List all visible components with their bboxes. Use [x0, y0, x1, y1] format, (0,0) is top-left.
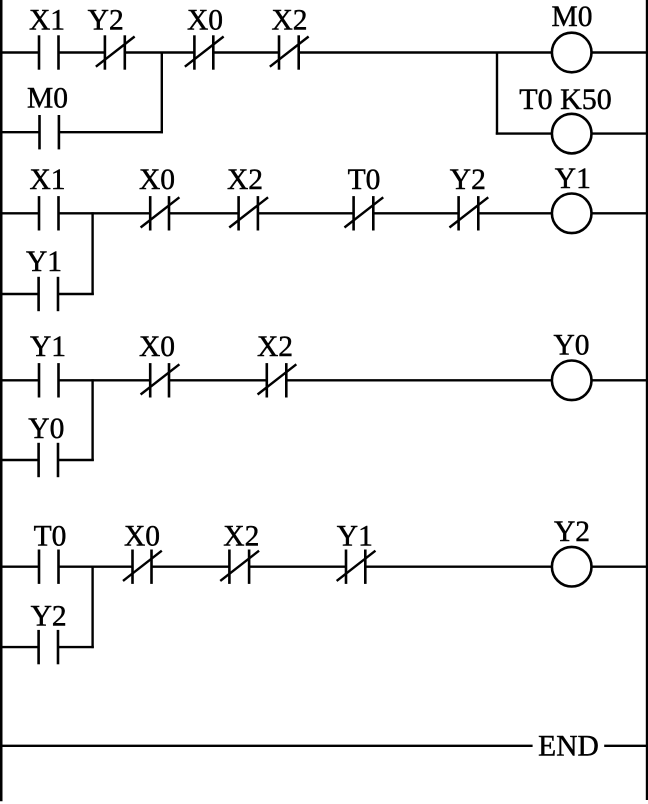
- svg-text:END: END: [538, 730, 599, 762]
- coil Y2: [552, 547, 592, 587]
- svg-text:X0: X0: [124, 520, 160, 552]
- rung 2 wire: coil Y1 to right rail: [591, 212, 646, 214]
- label X0 rung 3: [139, 331, 175, 363]
- label T0 rung 4: [34, 520, 67, 552]
- Y1 branch wire: rail to Y1 contact: [1, 293, 39, 295]
- coil Y1: [552, 194, 592, 234]
- svg-text:X2: X2: [223, 520, 259, 552]
- svg-text:T0: T0: [34, 520, 67, 552]
- rung 2 wire: rail to X1: [1, 212, 39, 214]
- contact X0 (NC) rung 4: [123, 550, 162, 584]
- rung 2 wire: T0 to Y2: [373, 212, 458, 214]
- label T0 rung 2: [348, 164, 381, 196]
- label X1: [29, 4, 65, 36]
- contact Y2 (NO) branch: [39, 630, 58, 664]
- label Y2 (branch contact): [31, 601, 67, 633]
- label Y1 (branch contact): [26, 246, 62, 278]
- rung 3 wire: rail to Y1: [1, 379, 39, 381]
- rung 3 wire: X2 to coil Y0: [286, 379, 552, 381]
- Y1 branch wire: Y1 contact to join: [58, 293, 94, 295]
- label M0 (coil): [552, 1, 593, 33]
- contact X1 (NO) rung 2: [39, 196, 59, 230]
- branch vertical wire (Y0 parallel join): [91, 379, 93, 461]
- label Y2 (coil): [554, 516, 590, 548]
- rung 1 wire: X1 to Y2: [59, 51, 105, 53]
- rung 4 wire: X0 to X2: [152, 566, 230, 568]
- svg-text:X1: X1: [29, 4, 65, 36]
- branch vertical wire (T0 coil): [496, 52, 498, 135]
- label X2: [271, 4, 307, 36]
- right power rail: [646, 0, 648, 800]
- contact X2 (NC) rung 2: [229, 196, 268, 230]
- branch vertical wire (Y1 parallel join): [91, 212, 93, 295]
- rung 4 wire: T0 to X0: [59, 566, 133, 568]
- label Y1 rung 4: [337, 521, 373, 553]
- rung 2 wire: X2 to T0: [258, 212, 354, 214]
- svg-text:T0 K50: T0 K50: [519, 83, 612, 116]
- label Y2: [88, 4, 124, 36]
- contact T0 (NO) rung 4: [39, 550, 59, 584]
- svg-text:X0: X0: [139, 164, 175, 196]
- svg-text:X2: X2: [271, 4, 307, 36]
- svg-text:M0: M0: [552, 1, 593, 33]
- contact M0 (NO): [40, 115, 59, 149]
- label X0 rung 4: [124, 520, 160, 552]
- label END: [538, 730, 599, 762]
- rung 4 wire: coil Y2 to right rail: [591, 566, 646, 568]
- contact X2 (NC): [270, 35, 309, 69]
- rung 2 wire: X1 to X0: [59, 212, 151, 214]
- Y0 branch wire: rail to Y0 contact: [1, 459, 39, 461]
- svg-text:M0: M0: [27, 83, 68, 115]
- svg-text:Y2: Y2: [450, 164, 486, 196]
- branch vertical wire (Y2 parallel join): [91, 566, 93, 648]
- svg-text:Y1: Y1: [30, 331, 66, 363]
- label Y1 rung 3: [30, 331, 66, 363]
- T0 branch wire: coil T0 to right rail: [591, 132, 646, 134]
- contact X2 (NC) rung 3: [258, 363, 297, 397]
- M0 branch wire: M0 contact to join: [59, 131, 163, 133]
- END rung wire: END label to right rail: [604, 745, 646, 747]
- contact X1 (NO): [39, 35, 59, 69]
- label Y0 (coil): [553, 330, 589, 362]
- contact Y2 (NC): [96, 35, 135, 69]
- label X0: [187, 4, 223, 36]
- END rung wire: rail to END label: [0, 745, 533, 747]
- label X0 rung 2: [139, 164, 175, 196]
- contact X0 (NC) rung 3: [141, 363, 180, 397]
- svg-text:Y0: Y0: [553, 330, 589, 362]
- label Y0 (branch contact): [28, 413, 64, 445]
- rung 2 wire: X0 to X2: [169, 212, 239, 214]
- svg-text:Y1: Y1: [337, 521, 373, 553]
- svg-text:X2: X2: [227, 164, 263, 196]
- branch vertical wire (M0 parallel join): [161, 52, 163, 134]
- T0 branch wire: join to coil T0: [496, 132, 552, 134]
- svg-text:Y2: Y2: [88, 4, 124, 36]
- label T0 K50: [519, 83, 612, 116]
- left power rail: [0, 0, 3, 801]
- rung 4 wire: X2 to Y1: [249, 566, 346, 568]
- rung 3 wire: coil Y0 to right rail: [591, 379, 646, 381]
- svg-text:X0: X0: [187, 4, 223, 36]
- label M0 (contact): [27, 83, 68, 115]
- contact X2 (NC) rung 4: [220, 550, 259, 584]
- contact Y1 (NO) rung 3: [39, 363, 59, 397]
- coil M0: [552, 33, 592, 73]
- svg-text:Y2: Y2: [31, 601, 67, 633]
- label X1 rung 2: [29, 164, 65, 196]
- rung 1 wire: X2 to coil M0: [299, 51, 552, 53]
- Y2 branch wire: Y2 contact to join: [58, 646, 94, 648]
- Y0 branch wire: Y0 contact to join: [58, 459, 94, 461]
- coil T0: [552, 114, 592, 154]
- rung 4 wire: rail to T0: [1, 566, 39, 568]
- label Y1 (coil): [555, 163, 591, 195]
- M0 branch wire: rail to M0 contact: [1, 131, 40, 133]
- contact Y1 (NO) branch: [39, 277, 58, 311]
- label Y2 rung 2: [450, 164, 486, 196]
- contact T0 (NC) rung 2: [344, 196, 383, 230]
- label X2 rung 2: [227, 164, 263, 196]
- svg-text:Y2: Y2: [554, 516, 590, 548]
- rung 1 wire: Y2 to X0: [125, 51, 195, 53]
- contact Y0 (NO) branch: [39, 443, 58, 477]
- rung 3 wire: X0 to X2: [169, 379, 267, 381]
- svg-text:Y1: Y1: [555, 163, 591, 195]
- svg-text:X2: X2: [257, 331, 293, 363]
- rung 2 wire: Y2 to coil Y1: [478, 212, 552, 214]
- rung 1 wire: rail to X1: [1, 51, 39, 53]
- label X2 rung 4: [223, 520, 259, 552]
- contact X0 (NC) rung 2: [141, 196, 180, 230]
- rung 1 wire: X0 to X2: [213, 51, 279, 53]
- Y2 branch wire: rail to Y2 contact: [1, 646, 39, 648]
- label X2 rung 3: [257, 331, 293, 363]
- rung 1 wire: coil M0 to right rail: [591, 51, 646, 53]
- svg-text:X0: X0: [139, 331, 175, 363]
- svg-text:Y0: Y0: [28, 413, 64, 445]
- contact Y2 (NC) rung 2: [449, 196, 488, 230]
- svg-text:Y1: Y1: [26, 246, 62, 278]
- rung 3 wire: Y1 to X0: [59, 379, 151, 381]
- rung 4 wire: Y1 to coil Y2: [365, 566, 552, 568]
- contact Y1 (NC) rung 4: [337, 550, 376, 584]
- coil Y0: [552, 361, 592, 401]
- svg-text:T0: T0: [348, 164, 381, 196]
- svg-text:X1: X1: [29, 164, 65, 196]
- contact X0 (NC): [185, 35, 224, 69]
